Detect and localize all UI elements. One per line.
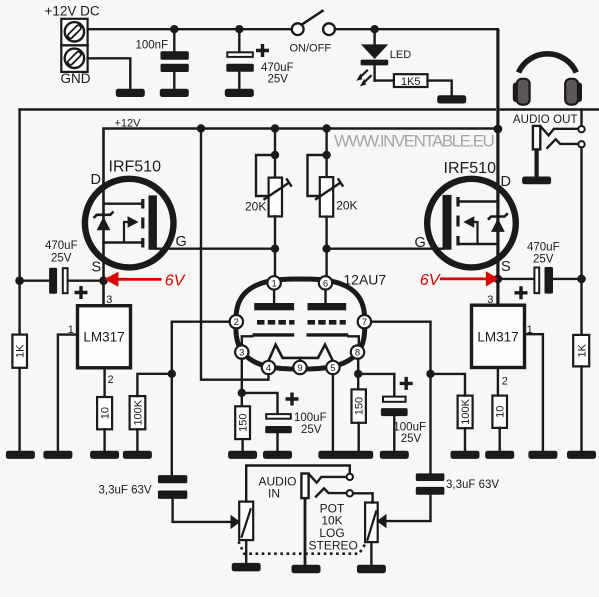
trimmer P1 20K left [245,129,292,277]
svg-text:25V: 25V [401,433,422,445]
jack audio in ring contact [316,488,347,496]
svg-text:IN: IN [268,487,280,501]
svg-text:100K: 100K [133,399,145,425]
ground 1K5 [437,95,466,103]
svg-text:2: 2 [234,317,239,328]
ground pin1 right [528,451,557,459]
svg-text:25V: 25V [533,254,554,266]
resistor 10 right [492,396,507,428]
wire pot right bottom to ground [370,542,372,565]
wire pot left bottom to ground [245,540,247,563]
svg-text:+12V DC: +12V DC [45,4,100,19]
ground 100K right [451,451,480,459]
trimmer P2 20K right [308,129,358,277]
wire 150 left to ground [241,439,243,451]
resistor 10 left [97,397,112,429]
pin 9 tube [293,361,306,374]
wire cathode left column [241,359,243,407]
transistor Q1 IRF510 left [85,159,187,276]
svg-text:2: 2 [502,376,508,388]
wire 150 right to ground [358,423,360,451]
pin 3 tube [235,345,248,358]
svg-text:G: G [176,234,187,250]
ground 10 left [90,451,119,459]
svg-text:25V: 25V [51,252,72,264]
svg-text:1K5: 1K5 [401,76,421,88]
regulator U2 LM317 right [472,294,533,388]
pin 7 tube [358,315,371,328]
potentiometer left 10K [239,502,253,540]
switch SW1 ON/OFF [290,10,335,54]
jack ring contact [547,139,578,148]
svg-text:470uF: 470uF [45,240,78,252]
transistor Q2 IRF510 right [415,160,516,275]
wire cathode right to 100uF [358,374,394,396]
resistor 100K right [458,396,473,429]
svg-text:STEREO: STEREO [309,539,358,553]
svg-text:100uF: 100uF [393,422,426,434]
svg-text:20K: 20K [336,198,357,212]
pin 8 tube [351,345,364,358]
wire +12V rail top [88,28,292,30]
annotation arrow 6V left [104,272,185,290]
svg-text:1K: 1K [576,343,588,357]
ground 100nF [160,89,189,97]
ground pin1 left [43,451,72,459]
node S left [99,276,108,285]
wire cathode right column [357,359,359,390]
wire GND from terminal [88,58,131,89]
wire LM317 right pin2 [497,368,499,396]
svg-text:4: 4 [266,363,271,374]
svg-text:S: S [92,260,102,276]
ground jack audio in [292,565,321,574]
resistor 100K left [130,396,146,429]
pin 5 tube [326,361,339,374]
wire LM317 right pin1 [525,334,543,451]
wire pin 5 to ground [332,374,334,451]
svg-text:3: 3 [239,348,244,359]
wire LED to 1K5 [375,79,394,81]
svg-text:6V: 6V [420,272,441,289]
jack J3 audio in plug [259,474,309,566]
terminal block J1 +12V DC [61,19,87,72]
wire 100K right to ground [464,428,466,451]
svg-text:25V: 25V [301,424,322,436]
wire heater feed from rail to pin 4 [201,129,269,380]
ground pot right [357,565,386,574]
jack audio in tip contact [309,474,347,483]
capacitor 100nF [136,29,189,89]
svg-text:LM317: LM317 [83,330,124,345]
wire switch rail down to +12V node and drain [496,29,499,305]
ground 10 right [485,451,514,459]
ground 100uF left [263,451,292,459]
pin 4 tube [262,361,275,374]
wire +12V inner rail [104,127,498,129]
node junction trimmer2 [322,124,330,132]
ground 1K right [567,451,596,459]
annotation arrow 6V right [420,271,499,288]
wire gate left [157,247,275,249]
svg-text:150: 150 [238,414,250,432]
svg-text:ON/OFF: ON/OFF [290,43,332,55]
wire switch to right [335,28,498,30]
svg-text:WWW.INVENTABLE.EU: WWW.INVENTABLE.EU [334,132,494,151]
wire audio out box top line [501,108,599,110]
node junction cathode right [354,370,362,378]
capacitor 100uF 25V right [381,377,426,451]
capacitor 3.3uF 63V left [99,475,241,529]
wire 10 right to ground [499,428,501,451]
capacitor 470uF 25V right output electrolytic [498,241,582,299]
node junction rail to drain column [494,125,503,134]
gang dotted line stereo pot [239,542,367,554]
svg-text:3,3uF 63V: 3,3uF 63V [446,479,499,491]
resistor 1K right [573,335,589,367]
svg-text:10: 10 [100,407,112,419]
svg-text:9: 9 [297,363,302,374]
wire 10 left to ground [103,429,105,451]
node junction heater feed [197,124,205,132]
resistor 1K left [12,335,27,368]
svg-text:12AU7: 12AU7 [343,272,386,288]
wire 100K left top to grid node [137,374,171,396]
svg-text:AUDIO OUT: AUDIO OUT [513,114,578,126]
resistor 150 right [352,389,366,422]
pin 6 tube [319,276,332,289]
wire ring to pot right top [353,493,373,502]
svg-text:IRF510: IRF510 [109,159,162,176]
svg-text:3,3uF 63V: 3,3uF 63V [99,484,152,496]
svg-text:100nF: 100nF [136,40,169,52]
wire left channel output top line [20,108,495,110]
wire grid left column [172,322,230,475]
svg-text:+12V: +12V [115,118,142,130]
svg-text:6V: 6V [165,272,186,289]
wire left drain column [102,129,105,306]
svg-text:7: 7 [362,317,367,328]
svg-text:D: D [501,174,511,190]
svg-text:150: 150 [354,397,366,415]
ground pot left [232,563,261,572]
ground 100uF right [380,451,409,459]
svg-text:IRF510: IRF510 [444,160,497,177]
svg-text:LED: LED [390,49,411,61]
ground GND terminal [116,89,145,97]
ground 100K left [123,451,152,459]
svg-text:20K: 20K [245,199,266,213]
jack tip contact [541,126,579,135]
node junction 470uF input [235,25,243,33]
node junction LED [370,25,378,33]
svg-text:1K: 1K [15,344,27,358]
svg-text:S: S [501,259,511,275]
wire 1K left to ground [18,368,20,451]
node junction grid left [168,370,176,378]
svg-text:3: 3 [106,294,112,306]
svg-text:10: 10 [495,406,507,418]
wire 100K right top to grid node [431,374,466,396]
wire output corner to jack tip [580,110,582,127]
node junction cathode left [238,389,246,397]
svg-text:LM317: LM317 [477,330,518,345]
capacitor 100uF 25V left [265,393,326,452]
ground jack audio out [522,177,551,185]
node junction right output [577,275,586,284]
svg-text:5: 5 [330,363,335,374]
node junction trimmer1 [271,124,279,132]
jack audio in tip terminal circle [347,474,353,480]
node junction 100nF [170,25,178,33]
node junction grid right [426,370,434,378]
svg-text:25V: 25V [268,74,289,86]
wire pot left top to audio in tip [246,466,350,502]
headphones icon [513,54,582,105]
LED D1 [356,29,411,86]
resistor 150 left [235,406,250,439]
svg-text:8: 8 [355,348,360,359]
jack J2 audio out plug [533,126,540,177]
capacitor 3.3uF 63V right [377,473,500,528]
jack tip terminal circle [578,126,584,132]
label POT 10K LOG STEREO [309,501,358,552]
wire 1K5 to ground [428,81,452,96]
node junction left edge [15,276,24,285]
capacitor 470uF 25V input electrolytic [226,29,293,89]
jack ring terminal circle [578,141,584,147]
svg-text:3: 3 [487,294,493,306]
svg-text:470uF: 470uF [261,62,294,74]
svg-text:100uF: 100uF [294,412,327,424]
svg-text:100K: 100K [460,398,472,424]
wire 100K left to ground [136,429,138,451]
node junction gate left [271,245,279,253]
pin 1 tube [267,276,280,289]
jack audio in ring terminal circle [347,490,353,496]
node S right [494,275,503,284]
tube V1 12AU7 [236,272,387,369]
ground 150 right [344,451,373,459]
svg-text:D: D [91,172,101,188]
wire LM317 left pin1 [58,335,78,451]
regulator U1 LM317 left [68,294,131,386]
pin 2 tube [230,315,243,328]
svg-text:2: 2 [108,374,114,386]
wire 1K right to ground [580,366,582,451]
wire right channel output column [580,148,582,335]
wire grid right column [371,322,430,475]
ground 470uF input [225,89,254,97]
svg-text:470uF: 470uF [527,241,560,253]
svg-text:6: 6 [323,278,328,289]
svg-text:G: G [415,235,426,251]
node junction gate right [322,245,330,253]
capacitor 470uF 25V left output electrolytic [22,240,104,299]
ground pin 5 [318,451,347,459]
svg-text:GND: GND [61,71,91,86]
resistor 1K5 [394,74,428,88]
wire gate right [327,247,443,249]
svg-text:1: 1 [271,278,276,289]
ground 1K left [6,451,35,459]
wire LM317 left pin2 [103,368,105,397]
wire cathode left to 100uF [242,393,278,413]
ground 150 left [228,451,257,459]
wire left edge column [18,110,20,335]
potentiometer right 10K [365,503,378,543]
